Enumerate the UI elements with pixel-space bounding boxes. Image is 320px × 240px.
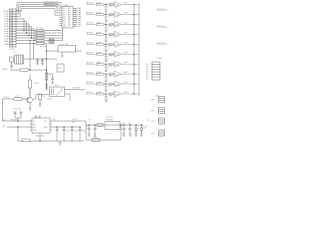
svg-text:GN: GN bbox=[33, 124, 37, 126]
svg-text:C8 22P: C8 22P bbox=[40, 46, 48, 48]
svg-text:NET01A: NET01A bbox=[157, 8, 165, 11]
svg-text:U5 LM: U5 LM bbox=[34, 117, 40, 119]
svg-text:OUTNET: OUTNET bbox=[72, 87, 81, 89]
svg-text:ON: ON bbox=[33, 130, 37, 132]
svg-text:GN: GN bbox=[2, 126, 6, 128]
svg-text:CON1: CON1 bbox=[9, 49, 16, 51]
svg-text:GND: GND bbox=[4, 44, 9, 46]
svg-text:R5 223: R5 223 bbox=[36, 38, 44, 40]
svg-text:AT89: AT89 bbox=[55, 29, 61, 32]
svg-text:REG33: REG33 bbox=[106, 120, 114, 122]
svg-text:XTN 402: XTN 402 bbox=[44, 5, 53, 7]
svg-text:VO: VO bbox=[44, 121, 47, 123]
svg-text:SW: SW bbox=[44, 127, 47, 129]
svg-text:VOUT: VOUT bbox=[72, 119, 79, 121]
svg-text:RST CIR: RST CIR bbox=[60, 44, 69, 46]
svg-text:R6 223: R6 223 bbox=[36, 41, 44, 43]
svg-text:NET02A: NET02A bbox=[157, 25, 165, 28]
svg-text:PWRIN5: PWRIN5 bbox=[10, 120, 19, 122]
svg-text:NETX: NETX bbox=[2, 69, 8, 71]
svg-text:NETQ: NETQ bbox=[4, 97, 10, 99]
svg-text:LM2576S: LM2576S bbox=[35, 136, 45, 138]
svg-text:U2A: U2A bbox=[115, 4, 120, 7]
svg-text:LD1117: LD1117 bbox=[106, 117, 114, 119]
svg-text:OUT1: OUT1 bbox=[123, 3, 129, 5]
svg-text:VIN: VIN bbox=[2, 120, 6, 122]
svg-text:K1RY: K1RY bbox=[47, 99, 53, 101]
svg-text:C31 C32: C31 C32 bbox=[13, 109, 22, 111]
svg-text:U1AB: U1AB bbox=[63, 4, 69, 7]
svg-text:NETIN1: NETIN1 bbox=[86, 3, 94, 5]
svg-text:DXA: DXA bbox=[4, 40, 9, 43]
svg-text:22 PB1: 22 PB1 bbox=[75, 26, 83, 28]
svg-text:NET03A: NET03A bbox=[157, 42, 165, 45]
svg-text:CON2: CON2 bbox=[156, 58, 163, 60]
